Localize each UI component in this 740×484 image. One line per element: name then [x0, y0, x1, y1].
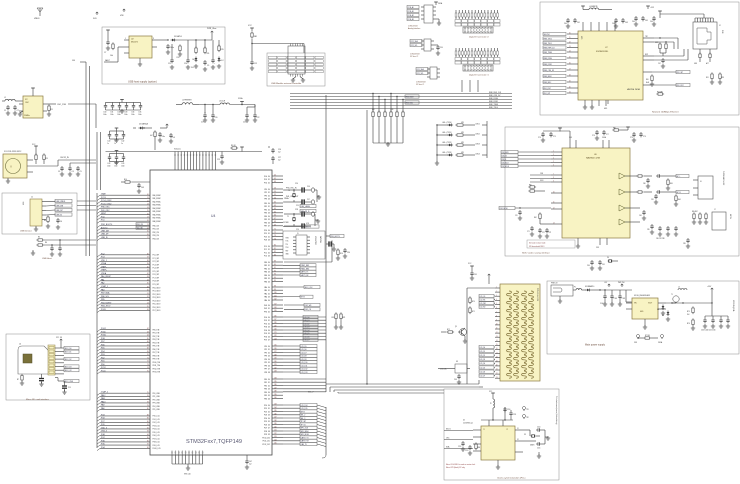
svg-text:PC8: PC8 [101, 418, 105, 420]
svg-text:PE2_D2: PE2_D2 [264, 385, 270, 387]
svg-text:VIN: VIN [120, 15, 124, 17]
svg-text:72: 72 [274, 232, 276, 234]
net labels RMII right [489, 92, 502, 109]
svg-text:C113: C113 [465, 450, 468, 452]
svg-text:KEY3: KEY3 [301, 297, 305, 299]
svg-text:VCAP_1: VCAP_1 [101, 285, 108, 288]
svg-text:26: 26 [147, 234, 149, 236]
led bank LED1-LED4 with resistors [435, 121, 487, 165]
svg-text:LCD_D7: LCD_D7 [480, 376, 486, 378]
svg-text:PE5_TIM: PE5_TIM [153, 346, 160, 348]
resistor R60 [528, 185, 536, 189]
svg-text:C20: C20 [215, 117, 218, 119]
svg-text:R64: R64 [678, 199, 681, 201]
svg-text:C29: C29 [296, 229, 299, 231]
svg-text:PB6_SCL: PB6_SCL [101, 296, 109, 298]
caption i2c1 [416, 82, 427, 87]
svg-text:C71: C71 [527, 231, 530, 233]
svg-text:VOUT: VOUT [648, 303, 652, 305]
svg-text:C76: C76 [592, 135, 595, 137]
svg-text:75: 75 [147, 392, 149, 394]
svg-text:PD1_D1: PD1_D1 [264, 233, 270, 235]
svg-text:16: 16 [569, 63, 571, 65]
svg-text:RMII_CRS_DV: RMII_CRS_DV [489, 95, 501, 97]
svg-text:LCD_D7: LCD_D7 [304, 340, 310, 342]
svg-text:X1: X1 [517, 428, 519, 430]
label pll vertical [555, 396, 558, 425]
svg-text:45: 45 [147, 283, 149, 285]
svg-text:C80: C80 [643, 183, 646, 185]
svg-text:U1: U1 [463, 420, 465, 422]
svg-text:T1: T1 [671, 294, 673, 296]
svg-text:GND: GND [286, 254, 289, 256]
svg-text:PB4_I2S: PB4_I2S [153, 238, 159, 240]
svg-text:PD0_D0: PD0_D0 [264, 405, 270, 407]
svg-text:L4 FERRITE: L4 FERRITE [589, 6, 598, 8]
right net label OTG [300, 209, 316, 212]
resistor R76 [687, 318, 695, 330]
svg-text:PA8: PA8 [101, 407, 104, 410]
svg-text:100n: 100n [117, 114, 121, 116]
svg-text:PD5: PD5 [101, 348, 105, 350]
svg-text:118: 118 [274, 322, 277, 324]
U4 right pin group 7 [264, 286, 283, 302]
svg-text:PC4_SPI: PC4_SPI [153, 268, 160, 270]
svg-text:X4: X4 [607, 257, 609, 259]
net labels module row2 [269, 60, 324, 63]
resistor R63 [666, 178, 673, 190]
capacitor C77 [602, 130, 609, 136]
net label AUDIO L [668, 174, 689, 177]
power flag reset [160, 124, 168, 128]
svg-text:PE3_D3: PE3_D3 [264, 213, 270, 215]
capacitor bank C30-C35 [103, 99, 142, 116]
svg-text:J1: J1 [31, 197, 33, 199]
svg-text:PB0_I2S: PB0_I2S [153, 225, 159, 227]
capacitor C58 dark [326, 241, 336, 251]
svg-text:C78: C78 [630, 137, 633, 139]
svg-text:R15: R15 [221, 49, 224, 51]
caption clocks synchronization [497, 477, 526, 480]
net label SDIO_D1 [64, 350, 79, 353]
svg-text:PD9_D9: PD9_D9 [264, 434, 270, 436]
svg-text:41: 41 [147, 270, 149, 272]
svg-text:RMII_RXD1: RMII_RXD1 [489, 101, 498, 103]
resistor R12 [177, 44, 183, 59]
svg-text:PD10_D10: PD10_D10 [262, 437, 270, 439]
svg-text:119: 119 [274, 325, 277, 327]
svg-text:56: 56 [147, 309, 149, 311]
svg-text:LED1: LED1 [476, 124, 480, 126]
svg-text:PG7_LCD: PG7_LCD [153, 438, 161, 440]
capacitor C70 [515, 210, 522, 220]
capacitor C2 [13, 105, 19, 115]
svg-text:I2C2_SCL: I2C2_SCL [411, 45, 418, 47]
svg-text:C47: C47 [249, 461, 252, 463]
svg-text:I2C1_SCL: I2C1_SCL [417, 73, 424, 75]
U4 right pin group 10 [264, 345, 283, 374]
svg-text:PE1_D1: PE1_D1 [264, 382, 270, 384]
svg-text:5V0: 5V0 [72, 60, 75, 62]
svg-text:100n: 100n [138, 114, 142, 116]
connector J6 phone jack [693, 176, 713, 199]
svg-text:RMII_TXEN: RMII_TXEN [489, 104, 499, 106]
svg-text:I2S_MCLK: I2S_MCLK [502, 166, 509, 168]
svg-text:R50: R50 [646, 79, 649, 81]
crystal X4 [607, 257, 618, 263]
svg-text:121: 121 [274, 332, 277, 334]
svg-text:134: 134 [274, 378, 277, 380]
inductor L4 ferrite [581, 6, 612, 10]
svg-text:PB4_NJRST: PB4_NJRST [101, 302, 112, 304]
svg-text:PA11: PA11 [101, 397, 105, 400]
svg-text:RMII_TXD1: RMII_TXD1 [544, 43, 552, 45]
svg-text:C65: C65 [645, 20, 648, 22]
resistor R11 [110, 42, 114, 57]
svg-text:C24: C24 [295, 183, 298, 185]
capacitor C63 [621, 18, 628, 24]
U4 left pin group 5 [97, 328, 161, 374]
svg-text:C30: C30 [347, 252, 350, 254]
svg-text:PC6: PC6 [101, 424, 105, 426]
svg-text:10: 10 [569, 33, 571, 35]
svg-text:PA1: PA1 [101, 278, 104, 281]
resistor R14 [204, 40, 210, 55]
svg-text:PA0_WKUP: PA0_WKUP [101, 275, 112, 278]
wire X1 right [27, 160, 58, 172]
svg-text:LED3: LED3 [476, 144, 480, 146]
capacitor bank C43-C45 [107, 151, 125, 168]
svg-text:PF7_D7: PF7_D7 [264, 369, 270, 371]
wire rj45 top rail [658, 11, 713, 18]
svg-text:95: 95 [147, 437, 149, 439]
resistor bank mic [692, 211, 708, 224]
svg-text:PG2_D2: PG2_D2 [264, 182, 270, 184]
svg-text:1u: 1u [107, 143, 109, 145]
U6 bottom pins [576, 238, 607, 249]
capacitor C74 [538, 132, 545, 142]
svg-text:C45: C45 [121, 163, 124, 165]
svg-text:C115: C115 [537, 448, 540, 450]
svg-text:18: 18 [569, 75, 571, 77]
resistor R10 boot [336, 248, 343, 260]
svg-text:PC9_SPI: PC9_SPI [153, 284, 160, 286]
wire vertical bus D+ [89, 66, 91, 256]
inductor L3 ferrite [199, 101, 255, 106]
svg-text:PE3_D3: PE3_D3 [264, 389, 270, 391]
svg-text:PE6_D6: PE6_D6 [264, 222, 270, 224]
svg-text:44: 44 [274, 175, 276, 177]
svg-text:NRST: NRST [101, 213, 107, 215]
svg-text:PF0_USB: PF0_USB [153, 393, 160, 395]
wire hp out upper [625, 176, 637, 192]
svg-text:RMII_CRS_DV: RMII_CRS_DV [544, 70, 555, 72]
value STM32Fxx7_TQFP144 [186, 439, 242, 445]
power flag 5V rail [604, 282, 625, 287]
svg-text:PG8: PG8 [101, 434, 105, 436]
svg-text:62: 62 [147, 328, 149, 330]
svg-text:C22: C22 [257, 117, 260, 119]
U7 left net labels [543, 32, 566, 94]
capacitor C21 [243, 107, 249, 124]
svg-text:TP2: TP2 [526, 417, 529, 419]
capacitor C89 [683, 238, 690, 248]
svg-text:122: 122 [274, 335, 277, 337]
svg-text:13: 13 [147, 204, 149, 206]
capacitor C112 [458, 441, 465, 451]
wire right rows 379 [283, 379, 326, 389]
svg-text:RXP: RXP [645, 54, 648, 56]
U4 right pin group 5 [264, 245, 283, 258]
ground jack [558, 296, 562, 303]
svg-text:LCD_D3: LCD_D3 [480, 359, 486, 361]
resistor R62 mode [534, 212, 551, 224]
svg-text:GND: GND [604, 108, 607, 110]
svg-text:Main power supply: Main power supply [585, 344, 606, 347]
svg-text:I2S_LRCK: I2S_LRCK [502, 152, 509, 154]
svg-text:C1: C1 [4, 110, 6, 112]
svg-text:136: 136 [274, 384, 277, 386]
capacitor C9 [203, 60, 209, 71]
resistor R20 [332, 312, 338, 320]
svg-text:82: 82 [274, 251, 276, 253]
svg-text:R10: R10 [340, 253, 343, 255]
svg-text:UPOS/VTREF: UPOS/VTREF [314, 236, 316, 245]
capacitor C72 [538, 228, 545, 238]
capacitor C113 [465, 445, 472, 455]
svg-text:BOOT1: BOOT1 [306, 226, 311, 228]
svg-text:RMII_RXD0: RMII_RXD0 [489, 98, 498, 100]
resistor R51 phyad [706, 72, 714, 84]
svg-text:VREF+: VREF+ [101, 270, 107, 272]
svg-text:C95: C95 [474, 274, 477, 276]
svg-text:49R9: 49R9 [655, 42, 659, 44]
wire fault line [104, 47, 124, 62]
svg-text:RMII_TXEN: RMII_TXEN [544, 52, 552, 54]
svg-text:PD12_D12: PD12_D12 [262, 444, 270, 446]
svg-text:LED-...(TXD2): LED-...(TXD2) [442, 142, 452, 144]
lcd connector J8 body [500, 284, 540, 381]
svg-text:J6: J6 [700, 181, 702, 183]
svg-text:C42: C42 [121, 141, 124, 143]
svg-text:40: 40 [147, 266, 149, 268]
svg-text:PF3_USB: PF3_USB [153, 403, 160, 405]
svg-text:PC1_D1: PC1_D1 [264, 249, 270, 251]
capacitor C84 [639, 210, 646, 220]
wire sd pins [55, 342, 64, 374]
svg-text:VREF-: VREF- [101, 266, 107, 268]
capacitor C71 [527, 226, 534, 236]
U1 right pins [515, 428, 523, 452]
svg-text:97: 97 [147, 444, 149, 446]
svg-text:17: 17 [147, 217, 149, 219]
svg-text:L2 FERRITE: L2 FERRITE [182, 100, 192, 102]
svg-text:27: 27 [147, 237, 149, 239]
svg-text:PF1_D1: PF1_D1 [264, 349, 270, 351]
inductor L1 [2, 97, 23, 101]
U4 left pin group 4 [97, 285, 161, 312]
svg-text:R7: R7 [17, 379, 19, 381]
svg-text:PF6_D6: PF6_D6 [264, 365, 270, 367]
capacitor C30b boot [343, 248, 350, 258]
svg-text:C32: C32 [117, 112, 120, 114]
svg-text:C81: C81 [651, 199, 654, 201]
svg-text:128: 128 [274, 354, 277, 356]
svg-text:92: 92 [274, 270, 276, 272]
svg-text:+: + [214, 63, 215, 65]
connector J5 SWD header [283, 231, 325, 259]
ferrite FB4 [636, 191, 652, 193]
svg-text:C25: C25 [296, 205, 299, 207]
capacitor C1 [4, 105, 10, 115]
svg-text:PF1_D1: PF1_D1 [264, 192, 270, 194]
svg-text:PE12_TIM: PE12_TIM [153, 368, 161, 370]
svg-text:MIC IN: MIC IN [729, 214, 731, 219]
svg-text:C12: C12 [254, 63, 257, 65]
svg-text:132: 132 [274, 367, 277, 369]
svg-text:PD2: PD2 [101, 357, 105, 359]
resistor R5 host [36, 237, 44, 242]
ferrite FB2 [612, 127, 629, 131]
net label FSMC row B [283, 267, 316, 270]
capacitor C101 bulk [610, 290, 617, 306]
svg-text:4k7: 4k7 [150, 135, 153, 137]
svg-text:I2S2_WS: I2S2_WS [305, 305, 312, 307]
svg-text:TMS: TMS [286, 238, 289, 240]
svg-text:100: 100 [274, 292, 277, 294]
ground U4 VSS [186, 466, 190, 470]
svg-text:6k49: 6k49 [646, 82, 649, 84]
svg-text:RMII_MDIO: RMII_MDIO [544, 76, 553, 78]
svg-text:LCD_D13: LCD_D13 [301, 372, 308, 374]
U7 top pins [583, 22, 615, 31]
svg-text:R5: R5 [38, 237, 40, 239]
svg-text:PD4_SDIO: PD4_SDIO [153, 301, 162, 303]
capacitor C96 [454, 374, 461, 384]
svg-text:USB: USB [23, 202, 25, 205]
svg-text:PB2_I2S: PB2_I2S [153, 232, 159, 234]
wire lcd bundle drop [479, 380, 483, 387]
svg-text:USB_ID: USB_ID [101, 237, 108, 239]
svg-text:C21: C21 [243, 122, 246, 124]
net label USB_ID [55, 213, 72, 216]
svg-text:C61: C61 [577, 22, 580, 24]
svg-text:69: 69 [147, 351, 149, 353]
svg-text:L5: L5 [678, 287, 680, 289]
svg-text:MIC2075: MIC2075 [131, 42, 138, 44]
region box main power [547, 281, 739, 354]
svg-text:98: 98 [274, 286, 276, 288]
svg-text:PE4_D4: PE4_D4 [264, 392, 270, 394]
svg-text:PD7: PD7 [101, 341, 105, 343]
svg-text:R80: R80 [478, 447, 481, 449]
svg-text:C62: C62 [612, 23, 615, 25]
capacitor C23 [217, 152, 224, 165]
svg-text:46: 46 [274, 181, 276, 183]
wire out rail [176, 39, 212, 40]
svg-text:PE2_D2: PE2_D2 [264, 209, 270, 211]
svg-text:SDIO_D3: SDIO_D3 [65, 366, 72, 368]
svg-text:RMII_TXD0: RMII_TXD0 [489, 107, 498, 109]
svg-text:PE6_TIM: PE6_TIM [153, 349, 160, 351]
svg-text:PE8_TIM: PE8_TIM [153, 355, 160, 357]
svg-text:25MHz: 25MHz [530, 445, 535, 447]
svg-text:PB4_D4: PB4_D4 [264, 275, 270, 277]
svg-text:144: 144 [274, 407, 277, 409]
svg-text:VDD: VDD [569, 137, 572, 139]
power flag VBUS top-left [34, 8, 43, 20]
svg-text:USB Host: USB Host [42, 257, 52, 260]
svg-text:PF3_D3: PF3_D3 [264, 199, 270, 201]
svg-text:Network 100Mbps Ethernet: Network 100Mbps Ethernet [652, 111, 679, 114]
svg-text:LCD_D1: LCD_D1 [480, 351, 486, 353]
power flag VIN [120, 9, 125, 17]
svg-text:PE9_TIM: PE9_TIM [153, 359, 160, 361]
note box sd slave [527, 240, 575, 248]
net label SDA [444, 446, 473, 449]
U7 left pins [567, 33, 578, 94]
svg-text:PD2_SDIO: PD2_SDIO [153, 294, 162, 296]
svg-text:18: 18 [147, 220, 149, 222]
capacitor C14 host [58, 246, 62, 256]
svg-text:SDIO_CLK: SDIO_CLK [305, 287, 314, 289]
svg-text:C5: C5 [80, 171, 82, 173]
ground J1 [34, 224, 60, 231]
svg-text:PF0_D0: PF0_D0 [264, 346, 270, 348]
svg-text:USB_DP: USB_DP [56, 210, 64, 212]
svg-text:147: 147 [274, 417, 277, 419]
capacitor bank C40-C42 [107, 128, 125, 145]
connector J2 RJ45 with magnetics [693, 18, 723, 49]
svg-text:54: 54 [147, 303, 149, 305]
svg-text:PC3_SPI: PC3_SPI [153, 264, 160, 266]
svg-text:C85: C85 [647, 229, 650, 231]
wire bus rips bottom right [317, 405, 326, 458]
svg-text:..R35: ..R35 [390, 109, 394, 111]
svg-text:C91: C91 [602, 264, 605, 266]
wire reg out [666, 302, 690, 303]
net label LCD_BL [438, 369, 453, 371]
svg-text:PC15_OS32: PC15_OS32 [101, 203, 111, 205]
svg-text:PDR_ON: PDR_ON [137, 224, 143, 226]
svg-text:2u2: 2u2 [278, 159, 281, 161]
svg-text:R72: R72 [447, 329, 450, 331]
net label SDIO_D2 [64, 357, 79, 360]
svg-text:100n: 100n [107, 166, 111, 168]
svg-text:PG0_D0: PG0_D0 [264, 176, 270, 178]
net label PDR box [136, 223, 150, 230]
power flag eth vcc [646, 6, 654, 9]
svg-text:PG15: PG15 [101, 309, 106, 311]
ground analog [436, 19, 441, 25]
svg-text:DL2: DL2 [221, 60, 224, 62]
svg-text:C89: C89 [683, 243, 686, 245]
svg-text:PG8_LCD: PG8_LCD [153, 442, 161, 444]
connector CON2 digital IO 2 with pullups [455, 10, 500, 39]
wire bundle to pll [334, 390, 444, 393]
capacitor C85 [647, 224, 654, 234]
svg-text:PD1_SDIO: PD1_SDIO [153, 291, 162, 293]
svg-text:X3: X3 [524, 434, 526, 436]
label vcc vertical [732, 300, 735, 311]
wire 32k out [58, 157, 96, 166]
svg-text:DL1: DL1 [191, 67, 194, 69]
U4 right pin group 6 [264, 261, 283, 284]
svg-text:PF0_D0: PF0_D0 [264, 189, 270, 191]
svg-text:PD2_D2: PD2_D2 [264, 236, 270, 238]
svg-text:PC2_D2: PC2_D2 [264, 252, 270, 254]
svg-text:PG2_D2: PG2_D2 [264, 323, 270, 325]
